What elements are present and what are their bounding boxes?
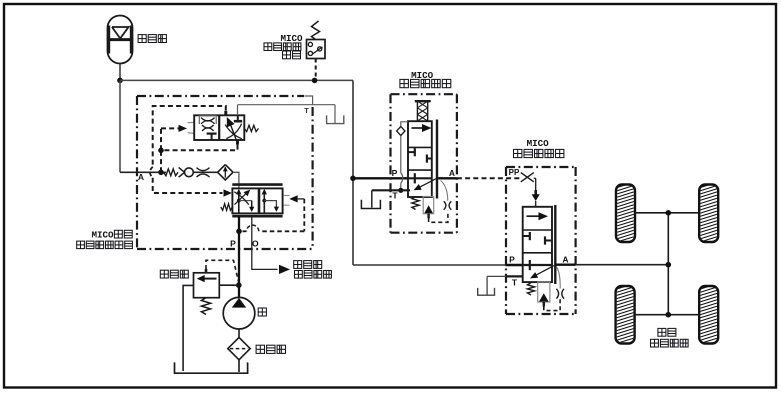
spring (check valve) bbox=[164, 169, 179, 176]
wire relief inlet bbox=[219, 284, 236, 286]
svg-text:P: P bbox=[509, 254, 515, 264]
wire rear axle bbox=[635, 314, 700, 316]
label 液压继动阀 bbox=[514, 149, 564, 157]
charge spool valve V2 bbox=[232, 185, 289, 217]
tank (unloader drain) bbox=[327, 115, 344, 123]
node A-line junction bbox=[666, 262, 672, 268]
label MICO (brake) bbox=[411, 70, 434, 81]
wire relay A to wheels bbox=[576, 264, 669, 266]
wire unloader T drain bbox=[238, 105, 336, 123]
PP orifice X bbox=[521, 173, 534, 182]
svg-text:P: P bbox=[392, 168, 398, 178]
label 低压报警 bbox=[264, 43, 301, 51]
svg-text:A: A bbox=[138, 172, 144, 182]
label T (charging) bbox=[304, 106, 309, 115]
pressure switch S1 bbox=[307, 21, 326, 59]
wire filter to tank bbox=[238, 360, 240, 372]
label 制动系统 bbox=[651, 339, 689, 347]
pump P1 bbox=[223, 297, 255, 329]
pilot line Z (P feedback to V2, dashed) bbox=[243, 199, 305, 231]
wire P relay entry bbox=[506, 264, 523, 266]
unloader valve V1 bbox=[194, 115, 244, 143]
wire line A mid bbox=[193, 171, 218, 173]
node switch junction bbox=[312, 78, 318, 84]
tank (relay T) bbox=[478, 288, 495, 295]
svg-text:T: T bbox=[392, 191, 398, 201]
relay valve unit boundary (dash-dot) bbox=[506, 167, 576, 314]
wire accumulator stem bbox=[119, 64, 121, 81]
feedback orifice (relay) bbox=[544, 267, 564, 311]
wire main vertical P bbox=[352, 80, 354, 265]
arrow to other systems bbox=[279, 265, 290, 274]
wheel rear-left bbox=[616, 284, 635, 347]
wheel rear-right bbox=[699, 284, 718, 347]
gauge line (brake valve) bbox=[397, 122, 409, 191]
charging valve unit boundary (dash-dot) bbox=[137, 96, 313, 249]
wire P lower run to relay valve bbox=[353, 264, 507, 266]
label accumulator 蓄能器 bbox=[138, 35, 166, 43]
wire switch pilot (dashed) bbox=[315, 59, 317, 79]
svg-text:P: P bbox=[230, 239, 236, 249]
label O (charging) bbox=[252, 239, 259, 249]
label T (brake) bbox=[392, 191, 398, 201]
wire P line down bbox=[238, 216, 240, 297]
check valve CV1 bbox=[179, 167, 194, 177]
label A (brake) bbox=[449, 168, 455, 178]
label 蓄能器充液阀 bbox=[77, 241, 133, 249]
node accumulator junction bbox=[117, 78, 123, 84]
svg-text:MICO: MICO bbox=[91, 230, 114, 241]
label 动力系统 bbox=[295, 271, 332, 279]
node brake T junction bbox=[398, 188, 403, 193]
label 溢流阀 bbox=[160, 270, 188, 278]
svg-text:T: T bbox=[304, 106, 309, 115]
spring (relief) bbox=[201, 298, 210, 315]
pilot line X (unloader top to charge spool pilot, dashed) bbox=[150, 106, 226, 193]
wire axle center bbox=[667, 213, 669, 315]
wire front axle bbox=[635, 212, 699, 214]
wire line A left bbox=[120, 171, 166, 173]
node P feedback junction bbox=[236, 229, 242, 235]
label 去其他 bbox=[294, 261, 322, 269]
label 滤清器 bbox=[256, 345, 285, 353]
label A (relay) bbox=[562, 254, 568, 264]
label MICO (relay) bbox=[527, 138, 550, 149]
svg-text:PP: PP bbox=[509, 168, 520, 177]
wheel front-right bbox=[699, 182, 718, 245]
wire diamond to charge spool bbox=[233, 172, 239, 188]
wire accumulator to line A bbox=[119, 80, 121, 172]
brake valve V3 bbox=[408, 120, 437, 199]
label A (charging) bbox=[138, 172, 144, 182]
label 泵 bbox=[258, 308, 266, 316]
wire brake A out bbox=[437, 177, 457, 179]
svg-text:A: A bbox=[562, 254, 568, 264]
tank (brake T) bbox=[361, 200, 380, 209]
label 单路制动阀 bbox=[400, 79, 451, 87]
spring (V2 left) bbox=[221, 204, 233, 211]
spring (unloader) bbox=[244, 125, 258, 131]
label T (relay) bbox=[512, 277, 518, 287]
label P (charging) bbox=[230, 239, 236, 249]
tank (main) bbox=[175, 362, 248, 373]
label P (brake) bbox=[392, 168, 398, 178]
wire brake T bbox=[372, 189, 410, 191]
node front axle junction bbox=[666, 210, 672, 216]
label PP bbox=[509, 168, 520, 177]
label P (relay) bbox=[509, 254, 515, 264]
wire O line down bbox=[252, 216, 278, 269]
label MICO (switch) bbox=[280, 33, 303, 44]
node pilot junction 1 bbox=[158, 148, 164, 154]
label MICO单路 bbox=[91, 230, 132, 241]
reducer element (relay) bbox=[538, 282, 550, 306]
orifice (line A) bbox=[197, 168, 210, 177]
accumulator bbox=[107, 16, 133, 64]
wire relief return bbox=[183, 285, 193, 371]
spring (relay valve) bbox=[527, 283, 534, 295]
node line A junction bbox=[158, 170, 164, 176]
flow valve D1 (diamond) bbox=[218, 165, 233, 180]
pilot line A to PP (dashed) bbox=[457, 177, 520, 179]
relay valve V4 bbox=[523, 205, 556, 284]
wire relay A out bbox=[555, 264, 575, 266]
pilot arrow (V2 right) bbox=[289, 195, 304, 202]
wire top supply bbox=[120, 79, 353, 81]
pilot line Y (line A node to unloader, dashed) bbox=[161, 122, 238, 172]
wire relay T bbox=[487, 276, 523, 294]
relief valve RV1 bbox=[194, 269, 220, 298]
spring (brake valve) bbox=[412, 197, 419, 210]
wheel front-left bbox=[616, 182, 635, 245]
wire P to brake valve bbox=[353, 177, 408, 179]
reducer element (brake) bbox=[423, 197, 434, 219]
label 单路 bbox=[658, 328, 676, 336]
svg-text:T: T bbox=[512, 277, 518, 287]
wire brake T drop bbox=[371, 190, 373, 207]
svg-text:O: O bbox=[252, 239, 259, 249]
label 开关 bbox=[283, 51, 301, 59]
pilot arrow (V2 left) bbox=[224, 189, 233, 196]
node P branch junction bbox=[350, 176, 356, 182]
svg-text:MICO: MICO bbox=[527, 138, 550, 149]
node rear axle junction bbox=[666, 312, 672, 318]
svg-text:A: A bbox=[449, 168, 455, 178]
wire pump to filter bbox=[238, 329, 240, 338]
feedback orifice (brake) bbox=[429, 181, 452, 223]
svg-text:MICO: MICO bbox=[280, 33, 303, 44]
node relief junction bbox=[236, 282, 242, 288]
filter F1 bbox=[228, 337, 250, 359]
pilot arrow (relay top) bbox=[532, 178, 540, 207]
brake valve unit boundary (dash-dot) bbox=[391, 94, 457, 233]
pilot (relief, dashed) bbox=[206, 260, 239, 283]
pedal actuator (brake) bbox=[415, 101, 431, 121]
